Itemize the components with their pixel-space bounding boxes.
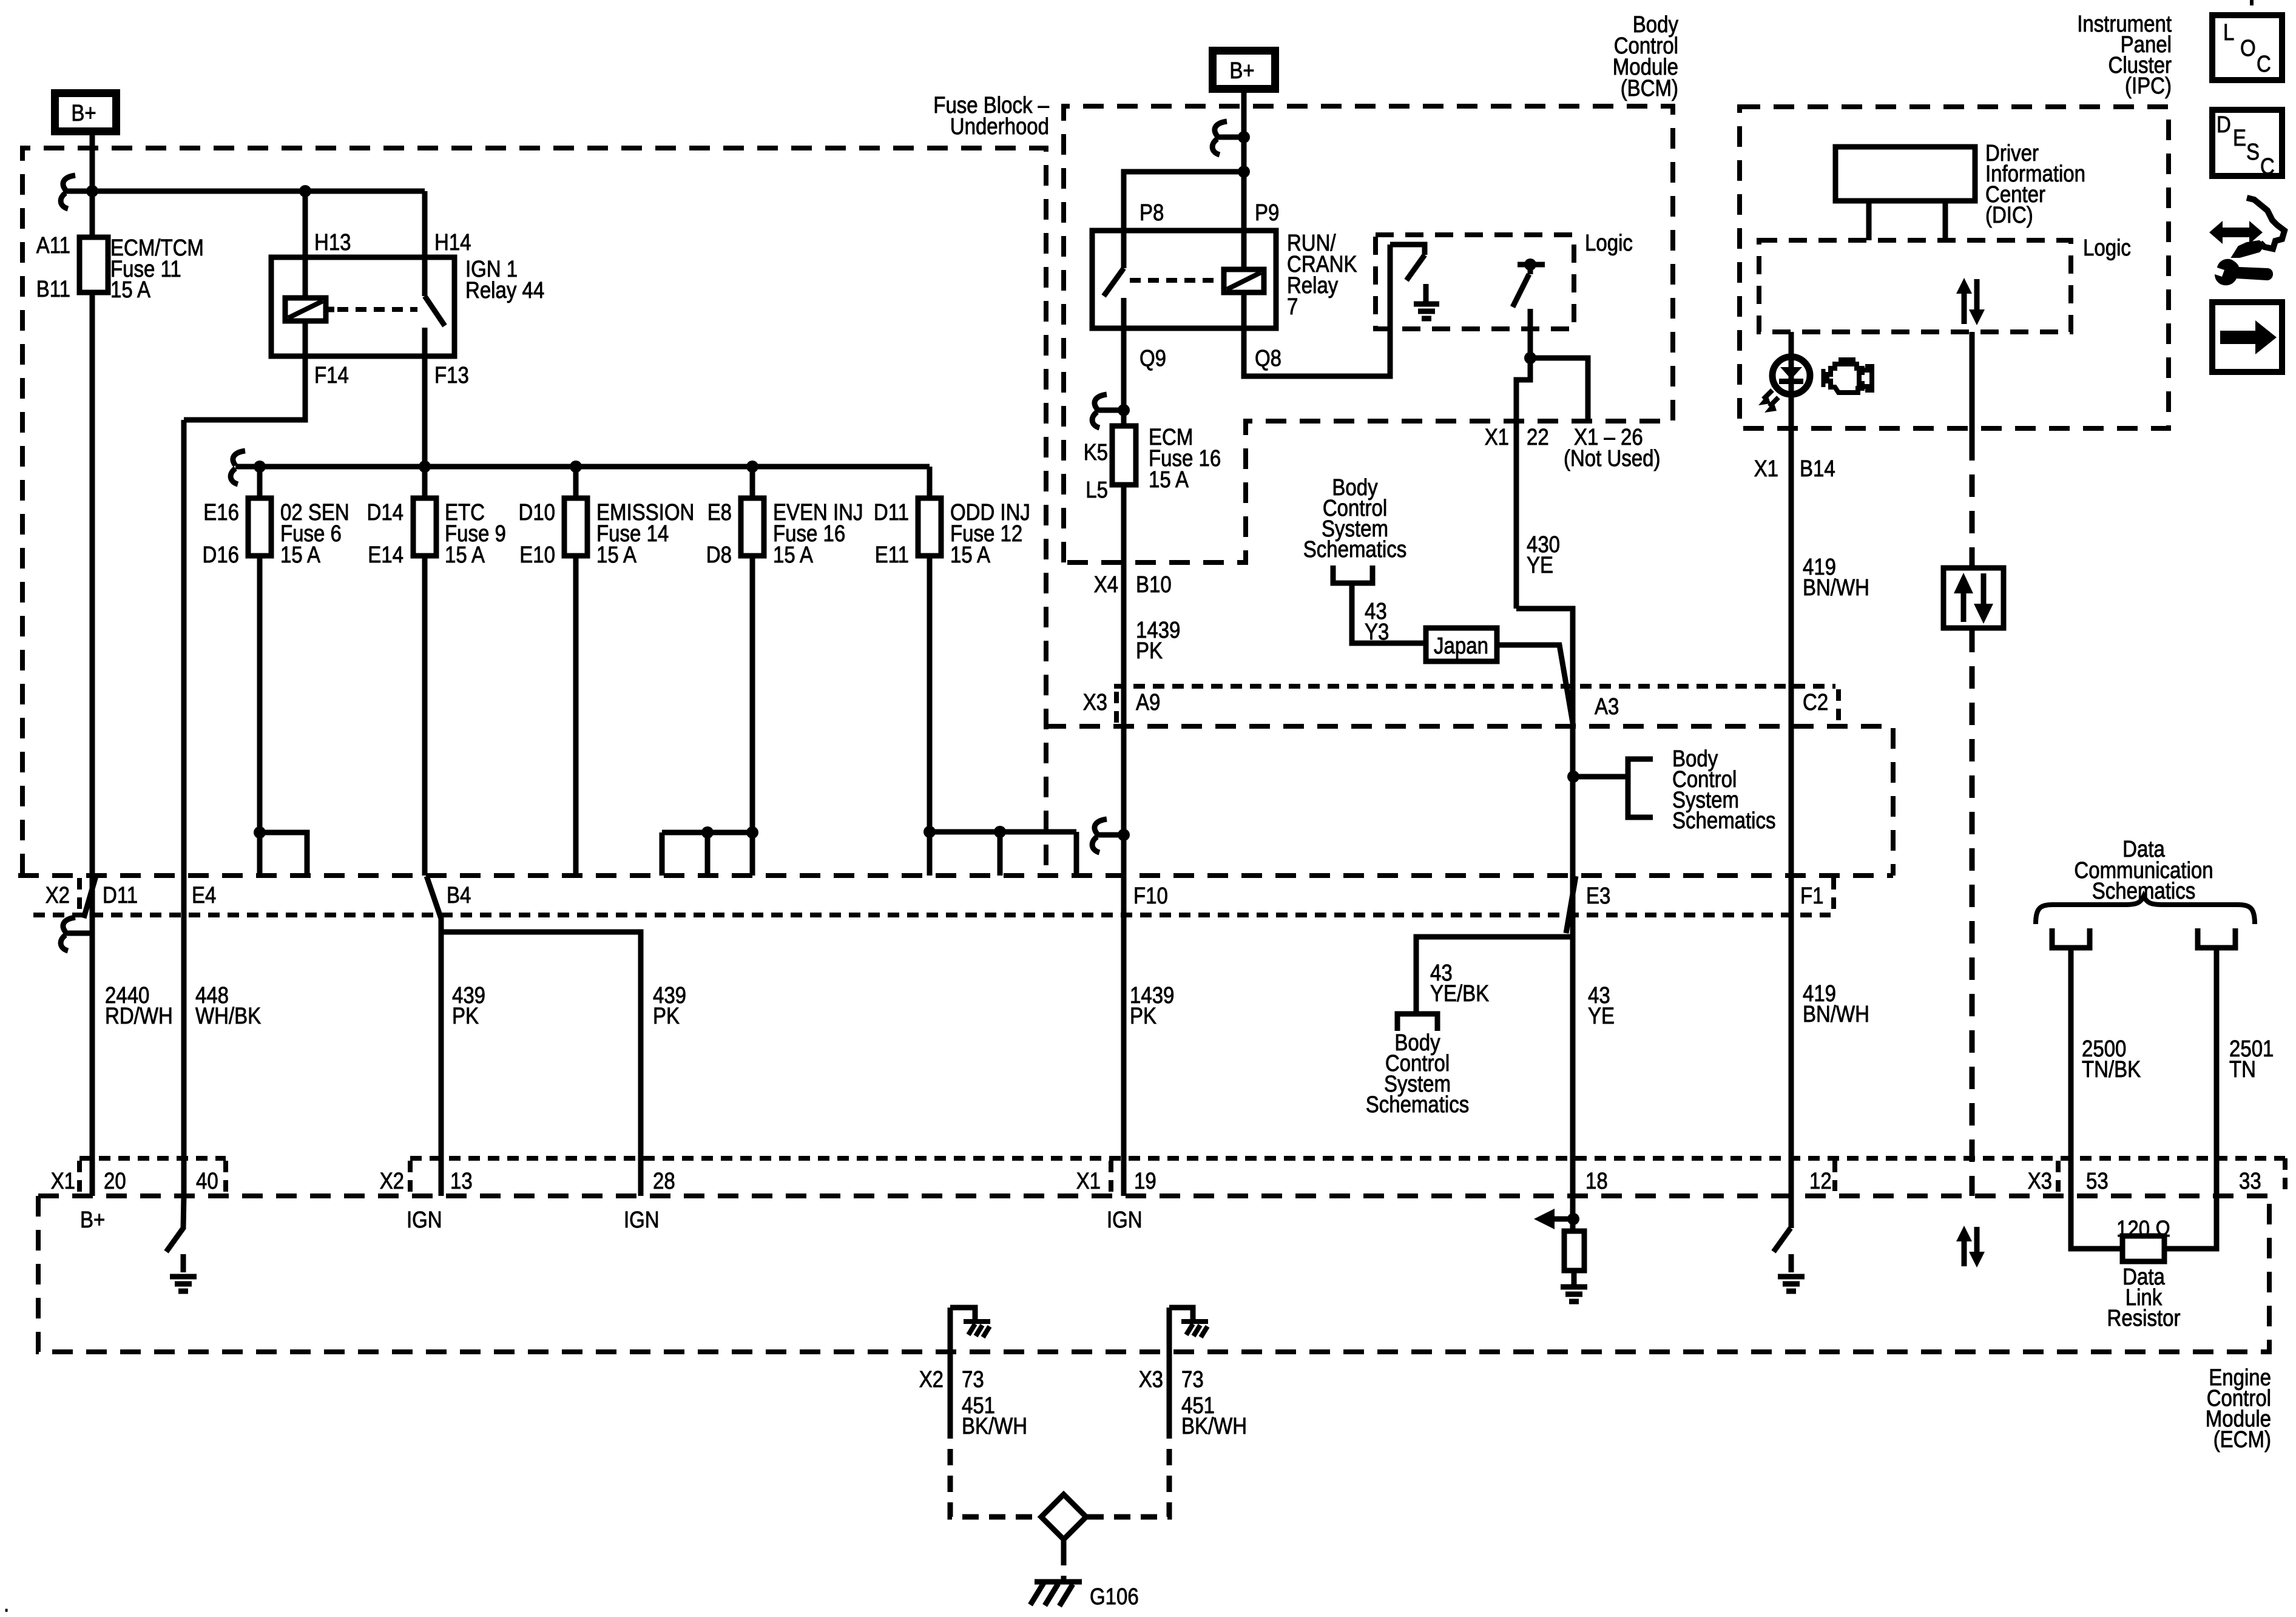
svg-text:TN: TN — [2229, 1057, 2256, 1082]
fuse ECM Fuse 16 15 A (underhood block pocket) — [1112, 328, 1136, 1196]
clip at left end of fuse bus — [231, 451, 245, 484]
switch to ground (ECM pin 40) — [166, 1196, 197, 1291]
svg-text:15 A: 15 A — [445, 542, 485, 568]
clip splice above ECM fuse — [1092, 394, 1130, 428]
label: pin D11 (band) — [103, 883, 138, 908]
svg-text:H13: H13 — [314, 230, 351, 255]
svg-text:E11: E11 — [875, 542, 909, 568]
label: wire 2501 TN — [2229, 1036, 2274, 1082]
svg-text:X1: X1 — [1754, 456, 1778, 482]
svg-text:E4: E4 — [192, 883, 216, 908]
svg-text:Logic: Logic — [1585, 231, 1633, 256]
fuse F1 ECM/TCM Fuse 11 15A — [79, 237, 108, 292]
svg-text:X1: X1 — [1076, 1169, 1101, 1194]
svg-text:15 A: 15 A — [280, 542, 321, 568]
svg-text:Schematics: Schematics — [1303, 537, 1407, 562]
relay K44 coil — [285, 298, 334, 321]
wire: 439 PK branch to ECM pin 28 — [441, 932, 641, 1196]
svg-text:20: 20 — [104, 1169, 126, 1194]
label: wire 1439 PK (upper) — [1136, 618, 1180, 664]
label: connector X2 (band) — [46, 883, 70, 908]
svg-text:X3: X3 — [1083, 690, 1107, 715]
ground G106 chassis symbol — [1030, 1582, 1082, 1606]
wire: 439 PK main run to ECM pin 13 — [439, 916, 444, 1196]
label: pin D11 — [874, 500, 909, 525]
label: pin L5 — [1086, 478, 1108, 503]
label: wire 439 PK (branch) — [653, 983, 686, 1029]
svg-text:B+: B+ — [71, 101, 96, 126]
svg-text:X1: X1 — [51, 1169, 75, 1194]
svg-text:(ECM): (ECM) — [2213, 1427, 2271, 1453]
svg-text:15 A: 15 A — [110, 277, 151, 303]
label: P9 — [1255, 200, 1279, 226]
label: pin E16 — [203, 500, 239, 525]
connector pass-through slash at D11 with clip — [61, 876, 96, 951]
ground (ECM pin 18 resistor) — [1561, 1287, 1587, 1301]
fuse F6 02 SEN — [248, 467, 271, 832]
label: wire 439 PK (left) — [452, 983, 485, 1029]
svg-text:G106: G106 — [1090, 1584, 1139, 1610]
relay K7 coil — [1224, 269, 1264, 292]
svg-text:D8: D8 — [706, 542, 732, 568]
label: pin D8 — [706, 542, 732, 568]
label: ECM Fuse 16 15 A — [1149, 425, 1221, 493]
module box: Body Control Module (BCM) dashed outline — [1064, 106, 1673, 562]
svg-text:X1: X1 — [1485, 425, 1509, 450]
svg-text:Logic: Logic — [2083, 235, 2131, 261]
label: connector X1 pin B14 — [1754, 456, 1835, 482]
logic box inside IPC — [1759, 240, 2071, 332]
label: ECM/TCM Fuse 11 15 A — [110, 235, 204, 303]
svg-text:D10: D10 — [519, 500, 556, 525]
label: connector X4 pin B10 — [1094, 572, 1172, 598]
logic box inside BCM — [1376, 235, 1574, 329]
BCM lower connector band dotted (X3/A9/A3/C2) — [1114, 686, 1838, 724]
relay K44 control dashed link — [337, 307, 417, 312]
wire: dashed ground runs to splice — [950, 1422, 1169, 1517]
fuse F9 ETC — [413, 467, 436, 876]
wire: EVEN INJ output bridge to connector pins — [662, 826, 758, 876]
indicator lamp MIL LED — [1758, 332, 1810, 413]
svg-text:PK: PK — [653, 1004, 680, 1029]
svg-text:Underhood: Underhood — [950, 114, 1049, 140]
svg-text:H14: H14 — [434, 230, 471, 255]
label: pin E3 — [1586, 883, 1610, 909]
label: pin E10 — [519, 542, 555, 568]
label: pin D14 — [367, 500, 404, 525]
wire: 2500 TN/BK — [2071, 948, 2122, 1249]
svg-text:53: 53 — [2086, 1169, 2109, 1194]
svg-text:22: 22 — [1527, 425, 1549, 450]
label: pin E4 (band) — [192, 883, 216, 908]
wire: 430 YE from X1-22 to A3 — [1516, 609, 1573, 777]
svg-text:D11: D11 — [874, 500, 909, 525]
off-page reference: Body Control System Schematics (upper) — [1303, 475, 1423, 643]
label: Logic (IPC) — [2083, 235, 2131, 261]
svg-text:Japan: Japan — [1434, 633, 1488, 659]
label: pin K5 — [1084, 440, 1108, 465]
svg-text:B+: B+ — [80, 1207, 105, 1233]
svg-text:F1: F1 — [1800, 883, 1824, 909]
label: IGN 1 Relay 44 — [465, 257, 544, 303]
svg-text:73: 73 — [1181, 1367, 1204, 1393]
svg-text:X2: X2 — [380, 1169, 404, 1194]
off-page bracket: serial data 2500 — [2052, 928, 2090, 948]
svg-text:Y3: Y3 — [1365, 619, 1389, 645]
label: pin E14 — [368, 542, 403, 568]
label: F13 — [434, 363, 469, 388]
svg-text:E16: E16 — [203, 500, 239, 525]
svg-text:Resistor: Resistor — [2107, 1306, 2181, 1331]
label: ODD INJ Fuse 12 15 A — [950, 500, 1030, 568]
page period mark — [4, 1592, 9, 1617]
power symbol B+ (BCM) — [1213, 51, 1275, 89]
svg-text:33: 33 — [2239, 1169, 2261, 1194]
svg-text:B14: B14 — [1800, 456, 1835, 482]
fuse F14 EMISSION — [564, 467, 587, 876]
label: pin B4 (band) — [447, 883, 471, 908]
svg-text:D16: D16 — [203, 542, 240, 568]
label: connector X1 pin 22 — [1485, 425, 1549, 450]
wire: B+ feed left vertical (2440 RD/WH run) — [90, 135, 95, 1196]
wire: ODD INJ output bridge to connector pins — [923, 826, 1076, 876]
svg-text:O: O — [2240, 36, 2256, 61]
label: P8 — [1140, 200, 1164, 226]
svg-text:YE/BK: YE/BK — [1430, 981, 1489, 1007]
svg-text:X3: X3 — [2028, 1169, 2052, 1194]
serial data arrows (ECM side) — [1956, 1226, 1985, 1268]
svg-text:F13: F13 — [434, 363, 469, 388]
wire: fuse bus — [235, 461, 930, 473]
label: EVEN INJ Fuse 16 15 A — [773, 500, 863, 568]
svg-text:WH/BK: WH/BK — [195, 1004, 261, 1029]
wire: relay coil output F14 down and left — [184, 321, 305, 420]
label: H14 — [434, 230, 471, 255]
svg-text:PK: PK — [452, 1004, 479, 1029]
svg-text:S: S — [2246, 140, 2260, 165]
serial data arrows (IPC logic) — [1956, 278, 1985, 325]
splice diamond — [1041, 1494, 1086, 1549]
wire: logic output down through X1-22 — [1516, 358, 1530, 609]
label: connector X3 pin 53 pin 33 — [2028, 1169, 2261, 1194]
wire: relay output F13 down to fuse bus — [422, 328, 428, 467]
label: ETC Fuse 9 15 A — [445, 500, 506, 568]
svg-text:13: 13 — [450, 1169, 473, 1194]
svg-text:15 A: 15 A — [950, 542, 991, 568]
DIC display box — [1835, 147, 1975, 201]
label: ECM pin 20 row — [51, 1169, 1832, 1194]
wire: Q8 to logic switch 1 — [1244, 245, 1390, 376]
svg-text:B4: B4 — [447, 883, 471, 908]
label: wire 1439 PK (lower) — [1130, 983, 1174, 1029]
svg-text:TN/BK: TN/BK — [2082, 1057, 2141, 1082]
svg-text:BK/WH: BK/WH — [1181, 1414, 1247, 1439]
label: pin A11 — [36, 233, 70, 258]
svg-text:C: C — [2260, 154, 2275, 180]
label: wire 448 WH/BK — [195, 983, 261, 1029]
label: RUN/CRANK Relay 7 — [1287, 231, 1357, 320]
wire: 02 SEN fuse output split to connector — [254, 826, 307, 876]
svg-text:(BCM): (BCM) — [1621, 76, 1678, 101]
relay K7 control dashed link — [1130, 278, 1221, 283]
wire: Japan output merging at A3 — [1499, 645, 1573, 726]
brace for data communication reference — [2036, 896, 2255, 924]
svg-text:D14: D14 — [367, 500, 404, 525]
label: Data Link Resistor — [2107, 1264, 2181, 1331]
svg-text:BK/WH: BK/WH — [962, 1414, 1027, 1439]
icon box: right arrow — [2212, 302, 2282, 372]
module box: Engine Control Module (ECM) dashed outline — [38, 1196, 2269, 1352]
wire: top bus to IGN 1 relay — [92, 189, 425, 194]
ground lead X3-73 hook — [1169, 1308, 1208, 1422]
label: Driver Information Center (DIC) — [1985, 141, 2085, 228]
wire: H13 riser — [299, 185, 311, 298]
label: pin D16 — [203, 542, 240, 568]
svg-text:Q9: Q9 — [1140, 346, 1166, 371]
connector band X2/D11/E4/B4/F10/E3/F1 top dashed line — [18, 873, 1893, 878]
node: logic output junction — [1524, 352, 1588, 421]
svg-text:P9: P9 — [1255, 200, 1279, 226]
svg-text:28: 28 — [653, 1169, 675, 1194]
svg-text:C2: C2 — [1803, 690, 1828, 715]
svg-text:(Not Used): (Not Used) — [1564, 446, 1661, 471]
svg-text:B+: B+ — [1229, 58, 1254, 84]
svg-text:E: E — [2233, 126, 2246, 151]
wire: 43 YE/BK tap below E3 — [1397, 937, 1570, 1031]
label: connector X3 pin 73 — [1139, 1367, 1204, 1393]
label: pin F1 — [1800, 883, 1824, 909]
svg-text:K5: K5 — [1084, 440, 1108, 465]
off-page reference: Body Control System Schematics (lower) — [1366, 1030, 1470, 1118]
svg-text:X3: X3 — [1139, 1367, 1163, 1393]
svg-text:15 A: 15 A — [596, 542, 637, 568]
wire: 448 WH/BK run down to ECM pin 40 — [181, 420, 187, 1196]
label: pin D10 — [519, 500, 556, 525]
icon box: DESC — [2212, 110, 2282, 180]
svg-text:E8: E8 — [707, 500, 732, 525]
svg-text:.: . — [4, 1592, 9, 1617]
label: X1 - 26 (Not Used) — [1564, 425, 1661, 471]
resistor: ECM pull resistor — [1564, 1231, 1584, 1285]
module box: Instrument Panel Cluster (IPC) dashed outline — [1740, 107, 2169, 428]
svg-text:B10: B10 — [1136, 572, 1172, 598]
connector band dotted line — [33, 878, 1834, 915]
label: H13 — [314, 230, 351, 255]
svg-text:IGN: IGN — [1107, 1207, 1143, 1233]
svg-text:RD/WH: RD/WH — [105, 1004, 173, 1029]
label: pin A3 — [1595, 694, 1619, 720]
label: Logic (BCM) — [1585, 231, 1633, 256]
svg-text:P8: P8 — [1140, 200, 1164, 226]
svg-text:PK: PK — [1130, 1004, 1156, 1029]
label: wire 419 BN/WH (upper) — [1803, 555, 1869, 601]
logic switch 1 to ground (BCM) — [1390, 245, 1439, 319]
svg-text:12: 12 — [1809, 1169, 1832, 1194]
svg-text:X4: X4 — [1094, 572, 1118, 598]
label: wire 451 BK/WH (left) — [962, 1393, 1027, 1439]
label: F14 — [314, 363, 349, 388]
label: Q9 — [1140, 346, 1166, 371]
svg-text:(IPC): (IPC) — [2125, 73, 2172, 99]
serial data gateway box with arrows — [1943, 568, 2004, 628]
node: 43 YE splice to reference — [1567, 759, 1653, 817]
label: Engine Control Module (ECM) — [2206, 1365, 2271, 1453]
svg-text:Schematics: Schematics — [1366, 1092, 1470, 1118]
label: wire 43 Y3 — [1365, 599, 1389, 645]
module box: BCM lower section dashed — [1045, 726, 1893, 876]
node: P8/P9 branch — [1124, 166, 1250, 268]
label: wire 43 YE — [1588, 983, 1615, 1029]
svg-text:D: D — [2217, 112, 2231, 138]
svg-text:YE: YE — [1588, 1004, 1615, 1029]
wire: 2501 TN — [2164, 948, 2217, 1249]
label: G106 — [1090, 1584, 1139, 1610]
svg-text:X2: X2 — [919, 1367, 944, 1393]
svg-text:73: 73 — [962, 1367, 984, 1393]
svg-text:IGN: IGN — [624, 1207, 660, 1233]
icon box: LOC — [2212, 15, 2282, 80]
wire: 419 BN/WH from MIL to ECM pin 12 — [1789, 403, 1794, 1228]
label: 02 SEN Fuse 6 15 A — [280, 500, 349, 568]
svg-text:D11: D11 — [103, 883, 138, 908]
logic switch 2 (BCM ignition sense) — [1513, 258, 1545, 358]
connector pass-through slash at B4 — [427, 876, 441, 919]
svg-text:F14: F14 — [314, 363, 349, 388]
svg-text:X2: X2 — [46, 883, 70, 908]
connector pass-through slash at E3 — [1566, 876, 1576, 933]
svg-text:E14: E14 — [368, 542, 403, 568]
svg-text:B11: B11 — [36, 277, 70, 302]
svg-text:BN/WH: BN/WH — [1803, 1002, 1869, 1027]
relay K44 IGN 1 Relay box — [271, 257, 454, 356]
label: wire 2500 TN/BK — [2082, 1036, 2141, 1082]
wire: serial data dashed to ECM — [1970, 630, 1975, 1196]
label: connector X3 pin A9 — [1083, 690, 1161, 715]
svg-text:40: 40 — [196, 1169, 218, 1194]
power symbol B+ (left) — [55, 93, 116, 132]
label: EMISSION Fuse 14 15 A — [596, 500, 694, 568]
wire: B+ into BCM — [1241, 93, 1247, 269]
label: Data Communication Schematics — [2074, 837, 2213, 904]
label: wire 2440 RD/WH — [105, 983, 173, 1029]
svg-text:(DIC): (DIC) — [1985, 203, 2033, 228]
wire: H14 riser — [422, 191, 428, 296]
relay K7 switch contact — [1104, 268, 1124, 328]
wire: DIC legs — [1869, 201, 1945, 240]
svg-text:15 A: 15 A — [1149, 467, 1189, 493]
relay K7 RUN/CRANK relay box — [1092, 231, 1276, 328]
svg-text:120 Ω: 120 Ω — [2116, 1217, 2170, 1242]
icon: check engine symbol — [1823, 360, 1872, 393]
svg-text:A9: A9 — [1136, 690, 1160, 715]
label: wire 419 BN/WH (lower) — [1803, 981, 1869, 1027]
svg-text:Q8: Q8 — [1255, 346, 1281, 371]
svg-text:E10: E10 — [519, 542, 555, 568]
label: wire 451 BK/WH (right) — [1181, 1393, 1247, 1439]
splice pack Japan — [1426, 628, 1497, 661]
svg-text:C: C — [2257, 52, 2271, 77]
svg-text:15 A: 15 A — [773, 542, 814, 568]
module box: Fuse Block - Underhood dashed outline — [22, 148, 1046, 874]
label: Fuse Block - Underhood — [933, 93, 1049, 140]
svg-text:PK: PK — [1136, 638, 1163, 664]
icon: adjust/service hand with wrench — [2209, 198, 2284, 285]
label: wire 430 YE — [1527, 532, 1560, 578]
clip splice on 1439 PK below A9 — [1092, 819, 1130, 852]
label: pin E8 — [707, 500, 732, 525]
node: pin 18 internal junction with arrow — [1534, 1209, 1579, 1229]
svg-text:19: 19 — [1134, 1169, 1156, 1194]
svg-text:L5: L5 — [1086, 478, 1108, 503]
svg-text:Schematics: Schematics — [1672, 808, 1776, 834]
fuse F16 EVEN INJ — [741, 467, 764, 832]
svg-text:Relay 44: Relay 44 — [465, 278, 544, 303]
svg-text:IGN: IGN — [407, 1207, 442, 1233]
label: pin C2 — [1803, 690, 1828, 715]
off-page reference: Body Control System Schematics (right) — [1672, 746, 1776, 834]
relay K44 switch contact — [425, 296, 445, 356]
ECM connector band dotted notches — [79, 1158, 2285, 1193]
wire: serial data from IPC logic — [1970, 332, 1975, 567]
label: pin F10 — [1133, 883, 1168, 909]
label: ECM internal nets B+ IGN — [80, 1207, 1143, 1233]
artifact tick top edge — [2250, 0, 2254, 5]
off-page bracket: serial data 2501 — [2198, 928, 2235, 948]
svg-text:18: 18 — [1585, 1169, 1608, 1194]
label: wire 43 YE/BK — [1430, 960, 1489, 1007]
fuse F12 ODD INJ — [918, 467, 941, 832]
switch to ground (ECM pin 12) — [1774, 1228, 1805, 1291]
svg-text:BN/WH: BN/WH — [1803, 575, 1869, 601]
svg-text:L: L — [2223, 20, 2234, 46]
ground lead X2-73 hook — [950, 1308, 990, 1422]
label: Body Control Module (BCM) — [1613, 12, 1678, 101]
label: connector X2 pin 73 — [919, 1367, 984, 1393]
svg-text:A3: A3 — [1595, 694, 1619, 720]
resistor R 120 ohm data link — [2116, 1217, 2170, 1261]
clip splice at top bus — [61, 175, 98, 209]
svg-text:A11: A11 — [36, 233, 70, 258]
label: pin E11 — [875, 542, 909, 568]
svg-text:7: 7 — [1287, 294, 1298, 320]
clip splice on BCM B+ wire — [1212, 121, 1250, 155]
label: Instrument Panel Cluster (IPC) — [2077, 12, 2172, 99]
label: Q8 — [1255, 346, 1281, 371]
wire: 43 YE down through E3 — [1570, 777, 1576, 1231]
label: pin B11 — [36, 277, 70, 302]
svg-text:F10: F10 — [1133, 883, 1168, 909]
svg-text:YE: YE — [1527, 553, 1553, 578]
wire: dashed to G106 — [1061, 1549, 1067, 1579]
svg-text:E3: E3 — [1586, 883, 1610, 909]
wire: P9 through coil to Q8 — [1241, 292, 1247, 328]
